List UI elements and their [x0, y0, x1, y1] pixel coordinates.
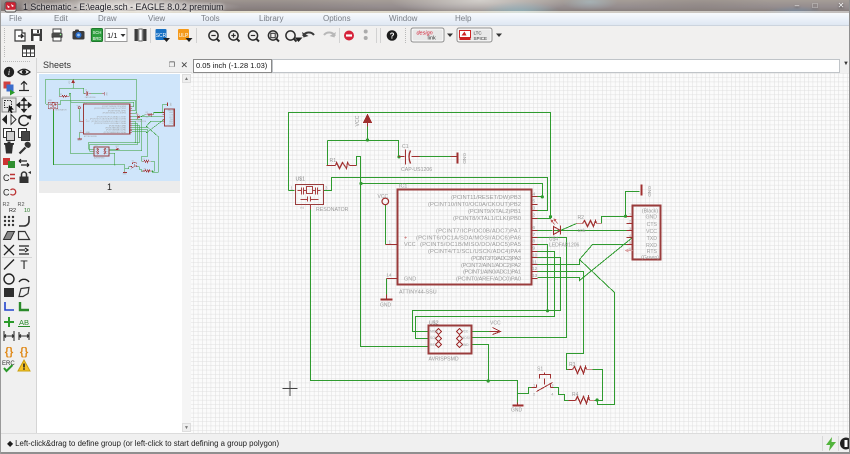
- wire IC pin7 MOSI to ISP: [109, 119, 142, 151]
- stop icon: [344, 31, 354, 41]
- svg-text:SPICE: SPICE: [474, 36, 488, 41]
- svg-text:2: 2: [130, 168, 131, 170]
- svg-text:2: 2: [50, 109, 52, 110]
- tool net: [5, 302, 14, 310]
- header pin stubs: [627, 217, 633, 245]
- svg-text:VCC: VCC: [169, 117, 174, 119]
- ground symbol top right: [166, 102, 169, 105]
- tool paste: [19, 129, 30, 141]
- svg-text:14: 14: [386, 273, 392, 279]
- svg-text:(PCINT0/AREF/ADC0)PA0: (PCINT0/AREF/ADC0)PA0: [456, 277, 521, 283]
- tool bus: [20, 302, 29, 310]
- tool show: [18, 69, 30, 75]
- svg-text:VCC: VCC: [106, 148, 109, 150]
- svg-text:GND: GND: [646, 186, 652, 197]
- wire net XTAL1 outer loop: [289, 113, 551, 219]
- wire R2 to header GND node: [602, 217, 626, 224]
- svg-text:4: 4: [137, 168, 138, 170]
- svg-text:RESONATOR: RESONATOR: [316, 207, 349, 213]
- wire IC pin13 TXD diagonal: [538, 238, 633, 281]
- IC1 pin labels: [416, 195, 522, 283]
- tool lock: [20, 171, 32, 183]
- svg-text:U$1: U$1: [296, 177, 306, 183]
- junction node C1 top: [397, 155, 400, 158]
- ground symbol near C1: [102, 92, 104, 95]
- svg-text:R3: R3: [569, 362, 576, 368]
- wire IC pin12 to R3: [538, 272, 584, 370]
- svg-text:(PCINT6/OC1A/SDA/MOSI/ADC6)PA6: (PCINT6/OC1A/SDA/MOSI/ADC6)PA6: [416, 235, 521, 241]
- wire IC pin1 to VCC circle: [385, 205, 387, 245]
- svg-text:GND: GND: [123, 174, 128, 176]
- svg-text:R1: R1: [60, 94, 62, 96]
- wire diagonal to R4 node: [580, 260, 615, 405]
- svg-text:8: 8: [533, 239, 536, 245]
- svg-text:C1: C1: [402, 144, 409, 150]
- svg-text:R2: R2: [9, 208, 16, 214]
- ground symbol near C1: [451, 153, 458, 164]
- junction node pin4 RESET: [133, 106, 134, 107]
- svg-text:(PCINT2/AIN1/ADC2)PA2: (PCINT2/AIN1/ADC2)PA2: [461, 263, 521, 269]
- svg-text:SCH: SCH: [93, 30, 102, 35]
- wire header VCC row: [554, 230, 627, 232]
- svg-text:+: +: [404, 236, 407, 242]
- svg-text:S1: S1: [537, 367, 543, 373]
- svg-text:link: link: [428, 36, 437, 42]
- svg-text:5: 5: [629, 241, 631, 245]
- svg-text:AVRISPSMD: AVRISPSMD: [429, 357, 459, 363]
- tool junction: [4, 317, 14, 327]
- svg-text:U$2: U$2: [94, 146, 97, 148]
- wire R4 to R3: [151, 161, 154, 171]
- LED U$4: [137, 115, 139, 118]
- tool move: [17, 98, 31, 112]
- wire VCC symbol drop: [72, 84, 74, 88]
- junction node RESET trunk: [70, 102, 71, 103]
- svg-text:1: 1: [629, 213, 631, 217]
- tool variant1: [5, 346, 14, 358]
- switch S1: [532, 373, 554, 392]
- tool display layers: [4, 82, 16, 96]
- tool polygon: [19, 288, 29, 297]
- wire VCC rail horizontal: [59, 88, 83, 93]
- svg-text:VCC: VCC: [115, 146, 119, 148]
- svg-text:10: 10: [24, 208, 30, 214]
- tool circle: [4, 274, 14, 284]
- svg-text:(PCINT9/XTAL2)PB1: (PCINT9/XTAL2)PB1: [468, 209, 521, 215]
- svg-text:GND: GND: [511, 408, 523, 414]
- svg-text:6: 6: [533, 225, 536, 231]
- svg-text:3: 3: [629, 227, 631, 231]
- junction node RESET trunk: [359, 182, 362, 185]
- resistor R4: [569, 397, 595, 404]
- svg-text:BRD: BRD: [93, 36, 102, 41]
- svg-text:GND: GND: [404, 277, 416, 283]
- svg-text:3: 3: [533, 205, 536, 211]
- svg-text:TXD: TXD: [169, 119, 173, 121]
- junction node XTAL loop: [136, 112, 137, 113]
- svg-text:TXD: TXD: [647, 236, 658, 242]
- svg-text:ERC: ERC: [2, 361, 15, 367]
- design link button: [411, 28, 444, 42]
- header RTS pin unconnected: [162, 123, 165, 124]
- junction node VCC rail: [366, 138, 369, 141]
- svg-text:11: 11: [532, 259, 537, 265]
- tool change (wrench): [20, 142, 31, 154]
- svg-text:CAP-US1206: CAP-US1206: [85, 96, 96, 99]
- svg-text:LTC: LTC: [474, 31, 483, 36]
- svg-text:(PCINT1/AIN0/ADC1)PA1: (PCINT1/AIN0/ADC1)PA1: [463, 270, 521, 276]
- tool delete: [4, 142, 14, 154]
- traffic dots: [364, 30, 368, 41]
- capacitor C1: [84, 91, 91, 96]
- svg-text:CAP-US1206: CAP-US1206: [401, 167, 432, 173]
- wire net XTAL1 outer loop: [46, 79, 136, 113]
- tool mark: [19, 82, 29, 91]
- IC1 right pin stubs: [386, 197, 538, 279]
- junction node header GND: [162, 112, 163, 113]
- svg-text:1: 1: [389, 239, 392, 245]
- tool dimension: [4, 331, 14, 341]
- wire LED cathode to R2: [140, 115, 146, 117]
- resistor R2: [577, 221, 602, 227]
- ground symbol top right: [641, 185, 643, 196]
- svg-text:IC1: IC1: [84, 102, 87, 104]
- supply VCC circle at IC pin1: [78, 107, 80, 109]
- IC1 ATTINY44 box: [84, 104, 130, 134]
- tool smash2: [18, 202, 31, 214]
- tool optimize: [19, 246, 29, 254]
- junction node GND trunk: [114, 164, 115, 165]
- svg-text:VCC: VCC: [490, 320, 501, 326]
- svg-text:10k: 10k: [578, 228, 586, 234]
- tool gateswap2: [3, 188, 16, 198]
- redo (gray): [324, 32, 336, 38]
- capacitor C1: [399, 150, 420, 165]
- svg-text:1/1: 1/1: [107, 31, 117, 40]
- resistor R1: [327, 163, 357, 169]
- wire R4 to R3: [593, 370, 603, 401]
- svg-text:(Green): (Green): [641, 255, 659, 261]
- junction node pin8: [135, 142, 136, 143]
- wire RESET branch y183: [71, 102, 134, 106]
- help icon: [387, 30, 398, 41]
- IC1 ATTINY44 box: [398, 190, 532, 285]
- junction node pin8: [546, 309, 549, 312]
- 1/1 combo: [105, 29, 127, 42]
- spice button: [457, 28, 492, 42]
- wire IC pin10 MISO to ISP: [89, 126, 140, 150]
- ground symbol at IC pin14: [381, 295, 393, 300]
- svg-text:2: 2: [629, 220, 631, 224]
- svg-text:9: 9: [533, 246, 536, 252]
- sch/brd icon: [92, 29, 103, 42]
- svg-text:VCC: VCC: [355, 115, 361, 126]
- header RTS pin unconnected: [625, 249, 633, 253]
- svg-text:1: 1: [47, 103, 48, 105]
- save icon: [31, 29, 42, 41]
- svg-text:GND: GND: [645, 215, 657, 221]
- svg-text:+: +: [86, 119, 87, 121]
- svg-text:ATTINY44-SSU: ATTINY44-SSU: [84, 135, 98, 138]
- wire GND symbol to header GND pin: [162, 105, 167, 113]
- svg-text:R3: R3: [143, 159, 145, 161]
- svg-text:RTS: RTS: [647, 249, 658, 255]
- tool arc: [19, 279, 29, 282]
- svg-text:C: C: [3, 188, 10, 198]
- svg-text:{}: {}: [20, 346, 29, 358]
- svg-text:4: 4: [533, 191, 536, 197]
- tool replace: [3, 158, 15, 168]
- resonator U$1: [48, 102, 58, 110]
- wire diagonal to R4 node: [146, 126, 158, 172]
- svg-text:GND: GND: [86, 132, 91, 134]
- IC1 right pin stubs: [79, 106, 131, 132]
- supply VCC arrow top: [72, 80, 75, 84]
- wire IC pin11 to diagonal: [538, 260, 580, 265]
- wire ISP GND pin to trunk: [109, 153, 115, 164]
- svg-text:6: 6: [629, 247, 631, 251]
- svg-text:GND: GND: [105, 92, 107, 96]
- ULP icon: [178, 29, 193, 42]
- svg-text:U$2: U$2: [429, 321, 439, 327]
- supply VCC arrow right of ISP: [490, 328, 501, 335]
- junction node R4: [152, 170, 153, 171]
- wire C1 to GND: [89, 92, 102, 94]
- tool array: [4, 216, 14, 226]
- switch S1: [130, 162, 138, 168]
- svg-text:GND: GND: [169, 112, 174, 114]
- IC1 pin numbers: [386, 191, 537, 279]
- svg-text:GND: GND: [380, 303, 392, 309]
- wire resonator pin3 to XTAL2: [324, 178, 548, 211]
- wire VCC symbol drop: [367, 127, 369, 141]
- svg-text:5: 5: [533, 199, 536, 205]
- header connector box: [633, 206, 661, 260]
- IC1 pin numbers: [80, 105, 132, 133]
- wire resonator pin1 to loop: [46, 103, 48, 105]
- resonator U$1: [296, 185, 324, 210]
- svg-text:R1: R1: [330, 158, 337, 164]
- tool copy: [4, 129, 15, 141]
- print icon: [52, 29, 63, 41]
- svg-text:CTS: CTS: [647, 222, 658, 228]
- svg-text:VCC: VCC: [86, 121, 91, 123]
- svg-text:4: 4: [629, 234, 631, 238]
- svg-text:(PCINT7/ICP/OC0B/ADC7)PA7: (PCINT7/ICP/OC0B/ADC7)PA7: [436, 228, 521, 234]
- supply VCC arrow top: [364, 115, 372, 127]
- svg-text:R2: R2: [578, 215, 585, 221]
- wire IC pin14 to GND: [386, 279, 388, 295]
- tool split: [4, 245, 14, 255]
- svg-text:i: i: [8, 68, 10, 77]
- svg-text:VCC: VCC: [69, 80, 71, 84]
- wire R1 right to RESET trunk: [69, 93, 94, 153]
- supply VCC circle at IC pin1: [382, 198, 389, 205]
- junction node header GND: [624, 215, 627, 218]
- svg-text:S1: S1: [132, 161, 134, 163]
- wire IC pin10 MISO to ISP: [413, 258, 561, 332]
- svg-text:RST: RST: [430, 343, 436, 347]
- undo: [302, 32, 314, 38]
- svg-text:10: 10: [532, 252, 538, 258]
- svg-text:MOSI: MOSI: [462, 336, 470, 340]
- junction node XTAL loop: [549, 215, 552, 218]
- ground symbol at S1: [123, 171, 127, 174]
- junction node R4: [596, 398, 599, 401]
- svg-text:(PCINT5/OC1B/MISO/DO/ADC5)PA5: (PCINT5/OC1B/MISO/DO/ADC5)PA5: [420, 242, 521, 248]
- svg-text:(PCINT8/XTAL1/CLKI)PB0: (PCINT8/XTAL1/CLKI)PB0: [453, 216, 521, 222]
- svg-text:C1: C1: [85, 90, 87, 92]
- wire ISP VCC pin: [472, 331, 493, 333]
- header connector box: [165, 109, 175, 126]
- wire S1 pin2 to GND: [125, 167, 130, 169]
- zoom icons: [209, 31, 220, 42]
- junction node C1 top: [83, 93, 84, 94]
- svg-text:R4: R4: [572, 392, 579, 398]
- svg-text:R2: R2: [146, 112, 148, 114]
- resistor R1: [59, 95, 69, 97]
- junction node VCC rail: [73, 88, 74, 89]
- tool wire: [4, 260, 14, 270]
- wire VCC rail horizontal: [328, 141, 399, 157]
- svg-text:2: 2: [533, 213, 536, 219]
- svg-text:AB: AB: [19, 318, 29, 327]
- wire header RXD diagonal: [580, 245, 633, 260]
- tool group select (active): [2, 98, 16, 113]
- SOP icon: [156, 29, 171, 42]
- wire IC pin13 TXD diagonal: [132, 119, 165, 133]
- svg-text:(PCINT11/RESET/DW)PB3: (PCINT11/RESET/DW)PB3: [102, 106, 126, 108]
- library books icon: [135, 29, 147, 41]
- svg-text:SCK: SCK: [430, 336, 437, 340]
- mouse crosshair: [283, 381, 298, 396]
- wire ISP VCC pin: [109, 148, 116, 150]
- tool rotate: [19, 115, 32, 126]
- ground symbol at S1: [513, 403, 524, 406]
- svg-text:C: C: [3, 173, 10, 183]
- svg-text:MISO: MISO: [430, 330, 439, 334]
- svg-text:R4: R4: [144, 169, 146, 171]
- wire ISP GND pin to trunk: [472, 345, 489, 381]
- wire IC pin9 SCK to ISP: [416, 252, 555, 339]
- resistor R3: [569, 367, 593, 374]
- ISP header U$2: [94, 147, 109, 156]
- tool info: [4, 67, 14, 77]
- wire resonator pin1 to loop: [289, 190, 295, 192]
- svg-text:3: 3: [137, 166, 138, 168]
- wire S1 pin4 to R4: [137, 167, 142, 171]
- svg-text:(Black): (Black): [168, 110, 174, 112]
- svg-text:AVRISPSMD: AVRISPSMD: [94, 156, 105, 159]
- svg-text:GND: GND: [462, 343, 470, 347]
- wire IC pin9 SCK to ISP: [90, 124, 138, 152]
- ground symbol at IC pin14: [78, 137, 82, 139]
- wire IC pin12 to R3: [132, 130, 148, 161]
- LED U$4: [554, 226, 561, 235]
- svg-text:GND: GND: [169, 103, 171, 107]
- tool label: [18, 318, 30, 327]
- supply VCC arrow right of ISP: [115, 148, 119, 150]
- svg-text:ATTINY44-SSU: ATTINY44-SSU: [399, 290, 437, 296]
- svg-text:IC1: IC1: [399, 184, 407, 190]
- wire IC pin8 stub down: [132, 121, 135, 142]
- wire IC pin6 to LED anode: [538, 230, 553, 232]
- wire GND symbol to header GND pin: [626, 192, 640, 217]
- svg-text:T: T: [20, 258, 28, 272]
- tool attribute: [19, 332, 29, 340]
- tool slant2: [19, 232, 30, 240]
- svg-text:CTS: CTS: [169, 115, 173, 117]
- IC1 left pin stubs: [79, 120, 83, 122]
- svg-text:U$1: U$1: [48, 100, 51, 102]
- svg-text:?: ?: [390, 32, 395, 41]
- wire R1 left: [327, 141, 329, 166]
- svg-text:(Black): (Black): [642, 209, 658, 215]
- tool text: [20, 258, 28, 272]
- tool miter: [19, 216, 29, 226]
- svg-text:10k: 10k: [146, 116, 149, 118]
- wire IC pin11 to diagonal: [132, 126, 146, 128]
- wire resonator pin2 to GND trunk: [53, 110, 124, 171]
- IC1 pin labels: [90, 106, 126, 134]
- wire R1 right to RESET trunk: [357, 157, 429, 347]
- svg-text:(PCINT11/RESET/DW)PB3: (PCINT11/RESET/DW)PB3: [451, 195, 521, 201]
- tool variant2: [20, 346, 29, 358]
- wire IC pin6 to LED anode: [132, 116, 137, 118]
- svg-text:LEDFAB1206: LEDFAB1206: [549, 242, 580, 248]
- header pin stubs: [163, 113, 165, 122]
- ISP header U$2: [429, 326, 472, 354]
- wire R1 left: [58, 88, 60, 96]
- tool gateswap: [3, 173, 15, 183]
- wire IC pin14 to GND: [79, 132, 81, 137]
- svg-text:VCC: VCC: [404, 242, 416, 248]
- wire C1 to GND: [413, 156, 451, 158]
- tool mirror: [2, 115, 16, 125]
- wire S1 pin2 to GND: [518, 388, 532, 394]
- svg-text:VCC: VCC: [378, 194, 389, 200]
- wire IC pin7 MOSI to ISP: [472, 238, 567, 338]
- wire R2 to header GND node: [154, 113, 162, 115]
- wire IC pin1 to VCC circle: [78, 109, 80, 122]
- grid icon: [23, 46, 35, 57]
- wire resonator pin3 to XTAL2: [58, 100, 135, 110]
- svg-text:GND: GND: [461, 153, 467, 164]
- wire RESET branch y183: [361, 184, 543, 197]
- svg-text:U$4: U$4: [136, 119, 139, 121]
- wire IC pin8 stub down: [538, 245, 548, 311]
- tool rect: [4, 288, 14, 297]
- IC1 left pin stubs: [386, 244, 398, 246]
- tool pinswap: [19, 159, 29, 167]
- svg-text:(PCINT3/T0/ADC3)PA3: (PCINT3/T0/ADC3)PA3: [471, 256, 521, 262]
- wire LED cathode to R2: [561, 224, 577, 231]
- svg-text:3: 3: [58, 103, 59, 105]
- svg-text:(PCINT4/T1/SCL/USCK/ADC4)PA4: (PCINT4/T1/SCL/USCK/ADC4)PA4: [428, 249, 522, 255]
- tool erc: [2, 361, 15, 371]
- svg-text:14: 14: [80, 131, 82, 133]
- wire header RXD diagonal: [146, 121, 164, 126]
- svg-text:RESONATOR: RESONATOR: [55, 109, 67, 112]
- svg-text:1: 1: [80, 120, 81, 122]
- svg-text:7: 7: [533, 232, 536, 238]
- svg-text:VCC: VCC: [646, 229, 657, 235]
- wire S1 pin4 to R4: [554, 388, 569, 401]
- junction node pin4 RESET: [541, 195, 544, 198]
- tool smash: [3, 202, 17, 214]
- svg-text:{}: {}: [5, 346, 14, 358]
- svg-text:(PCINT10/INT0/OC0A/CKOUT)PB2: (PCINT10/INT0/OC0A/CKOUT)PB2: [428, 202, 521, 208]
